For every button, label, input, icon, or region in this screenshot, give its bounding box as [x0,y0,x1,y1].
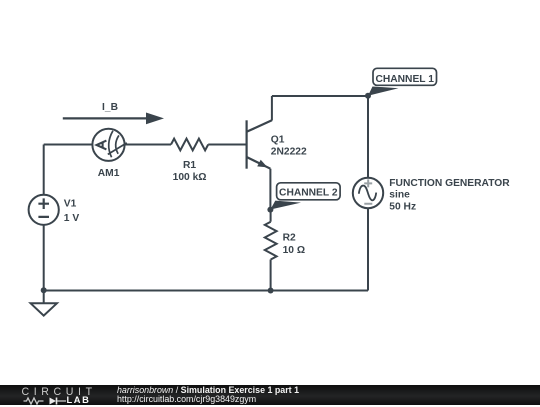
wire top horizontal (collector to channel-1 node) [272,95,368,97]
svg-text:100 kΩ: 100 kΩ [173,172,207,183]
voltage source V1 [29,195,59,225]
svg-text:50 Hz: 50 Hz [389,202,416,213]
svg-text:1 V: 1 V [64,213,80,224]
function generator SRC [353,178,383,208]
resistor R1 [171,139,208,151]
CircuitLab logo text LAB [67,395,91,405]
wire right vertical (through function generator) [367,96,369,291]
svg-text:R2: R2 [283,233,296,244]
CircuitLab logo text CIRCUIT [22,386,97,398]
node bottom left [41,287,47,293]
ammeter AM1 [92,129,126,161]
ground [31,290,57,315]
transistor Q1 [247,120,272,168]
footer line 2 [117,394,256,404]
channel 2 box [277,183,341,200]
CircuitLab logo squiggle + diode [22,395,92,407]
emitter arrowhead [257,160,267,168]
node emitter/channel2 [267,207,273,213]
node bottom under R2 [268,288,274,294]
wire R2 top stub [270,210,272,222]
wire emitter vertical to node [269,169,271,210]
wire base-row right segment (R1 to Q1 base) [208,144,246,146]
footer bar [0,385,540,406]
channel 1 callout tail [368,87,399,96]
channel 1 box [373,68,437,85]
wire R2 bottom stub [270,260,272,291]
footer line 1 [117,385,299,395]
svg-text:2N2222: 2N2222 [271,147,307,158]
channel 2 callout tail [270,201,301,210]
resistor R2 [265,222,277,260]
wire bottom horizontal [44,290,368,292]
wire left vertical (through V1) [43,145,45,291]
svg-text:10 Ω: 10 Ω [283,245,305,256]
svg-text:Q1: Q1 [271,135,285,146]
svg-text:V1: V1 [64,199,77,210]
node collector/channel1 [365,93,371,99]
wire base-row left segment [44,144,171,146]
svg-text:sine: sine [389,190,410,201]
svg-text:R1: R1 [183,160,196,171]
wire collector vertical stub [271,96,273,121]
svg-text:CHANNEL 2: CHANNEL 2 [279,188,338,199]
svg-text:CHANNEL 1: CHANNEL 1 [375,74,434,85]
svg-text:I_B: I_B [102,102,118,113]
svg-text:AM1: AM1 [98,168,120,179]
arrow I_B [63,113,164,125]
svg-text:FUNCTION GENERATOR: FUNCTION GENERATOR [389,178,510,189]
